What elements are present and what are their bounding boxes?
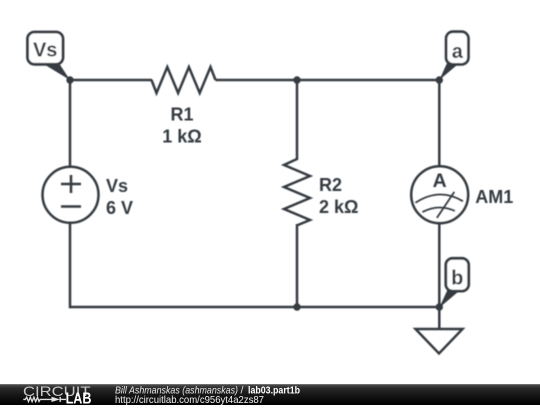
svg-text:6 V: 6 V [106,198,133,218]
svg-text:A: A [433,170,447,192]
voltage source plus sign [61,183,81,186]
node label Vs box [28,32,64,64]
node label a box [446,32,468,65]
wire: bottom rail from left corner to node b [70,306,439,309]
CircuitLab logo diode [52,397,61,402]
ammeter AM1 [411,166,468,223]
wire: middle lower segment from R2 to bottom rail [296,224,299,307]
node label Vs pointer [41,63,70,81]
svg-text:AM1: AM1 [475,187,513,207]
junction dot bottom of R2 [293,303,300,310]
junction dot at node a [436,76,443,83]
ammeter inner scale arc [422,207,454,212]
svg-text:b: b [451,268,463,290]
resistor R1 [152,67,216,93]
node label b pointer [439,290,460,308]
ammeter needle [437,192,454,218]
svg-text:R1: R1 [170,105,193,125]
ammeter outer scale arc [415,194,463,202]
svg-text:http://circuitlab.com/c956yt4a: http://circuitlab.com/c956yt4a2zs87 [115,394,264,405]
wire: top-left segment from node Vs junction to R1 [70,79,152,82]
wire: left upper segment from node Vs down to V source [69,80,72,167]
resistor R2 [284,159,310,225]
svg-text:Vs: Vs [33,40,57,62]
svg-text:a: a [452,41,464,63]
node label b box [446,258,469,291]
wire: ground stem below node b [438,307,441,330]
svg-text:Vs: Vs [106,176,128,196]
wire: left lower segment from V source to bottom rail [69,223,72,309]
wire: right lower segment from ammeter to node b [438,223,441,307]
svg-text:R2: R2 [319,175,342,195]
voltage source minus sign [61,205,81,208]
wire: right upper segment from node a to ammeter [438,80,441,167]
wire: middle upper segment from top rail to R2 [296,80,299,160]
ground symbol [416,329,463,354]
voltage source Vs [43,167,99,223]
wire: top-right segment from R1 to node a [216,79,440,82]
junction dot at node Vs [66,76,73,83]
svg-text:2 kΩ: 2 kΩ [319,197,358,217]
junction dot top of R2 [293,76,300,83]
svg-text:LAB: LAB [66,391,92,405]
footer bar [0,384,540,405]
CircuitLab logo resistor zigzag [23,397,52,401]
svg-text:1 kΩ: 1 kΩ [162,127,201,147]
junction dot at node b [436,303,443,310]
node label a pointer [439,62,460,80]
